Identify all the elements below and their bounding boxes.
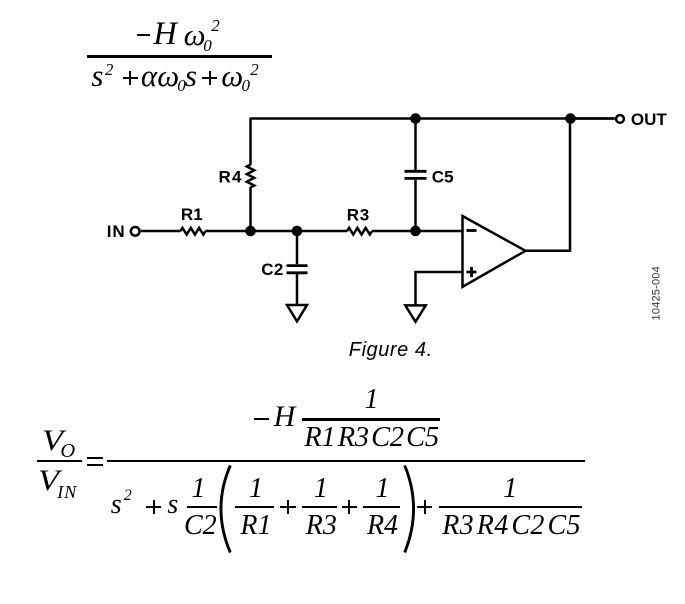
formula fraction 1/R1 numerator bbox=[237, 475, 276, 503]
op-amp plus sign bbox=[467, 267, 477, 277]
node junction C5/R3 bbox=[410, 226, 421, 237]
wire top rail bbox=[251, 117, 615, 120]
svg-text:OUT: OUT bbox=[631, 110, 668, 129]
formula equals sign bottom bar bbox=[87, 464, 104, 466]
formula top numerator H bbox=[153, 18, 176, 51]
formula big right parenthesis bbox=[398, 463, 424, 555]
formula top denominator superscript 2 bbox=[105, 61, 114, 78]
formula main fraction bar bbox=[107, 460, 585, 462]
formula denominator plus 1 horizontal bbox=[146, 506, 161, 508]
formula VIN subscript IN bbox=[57, 483, 77, 501]
node junction top rail feedback bbox=[565, 113, 576, 124]
formula fraction 1/R3 numerator bbox=[303, 475, 338, 503]
wire C2 branch lower bbox=[296, 274, 299, 305]
formula denominator plus 4 vertical bbox=[424, 500, 426, 515]
capacitor C5 plate bottom bbox=[405, 177, 427, 180]
figure caption Figure 4. bbox=[349, 340, 433, 360]
svg-text:R3: R3 bbox=[347, 206, 370, 225]
resistor R4 bbox=[247, 165, 254, 188]
formula denominator plus 2 vertical bbox=[287, 500, 289, 515]
formula top denominator alpha bbox=[141, 60, 157, 91]
formula fraction 1/R1 bar bbox=[235, 506, 274, 508]
op-amp U1 bbox=[463, 216, 526, 287]
wire C5 branch lower bbox=[414, 180, 417, 231]
formula denominator plus 1 vertical bbox=[153, 500, 155, 515]
watermark 10425-004 bbox=[652, 268, 663, 320]
formula fraction 1/C2 bar bbox=[187, 506, 217, 508]
wire op-amp noninverting input bbox=[416, 272, 463, 305]
formula top denominator plus 2 horizontal bbox=[202, 77, 217, 79]
wire op-amp output bbox=[526, 119, 570, 251]
svg-text:IN: IN bbox=[107, 222, 126, 241]
capacitor C2 plate bottom bbox=[287, 271, 308, 274]
OUT terminal bbox=[616, 115, 624, 123]
wire C5 branch upper bbox=[414, 119, 417, 171]
formula numerator R1 R3 C2 C5 bbox=[303, 424, 441, 453]
resistor R1 bbox=[180, 228, 205, 235]
formula top minus sign bbox=[137, 34, 150, 36]
formula top numerator subscript 0 bbox=[203, 37, 212, 54]
formula top denominator omega 1 bbox=[157, 60, 179, 91]
formula top denominator plus 1 vertical bbox=[129, 71, 131, 86]
capacitor C2 plate top bbox=[287, 264, 308, 267]
formula denominator plus 3 vertical bbox=[348, 500, 350, 515]
wire to OUT terminal bbox=[570, 117, 615, 120]
resistor R3 bbox=[347, 228, 372, 235]
formula fraction 1/R1 denominator bbox=[237, 512, 276, 540]
formula denominator plus 3 horizontal bbox=[342, 506, 357, 508]
formula fraction 1/R3 bar bbox=[302, 506, 337, 508]
formula numerator nested fraction bar bbox=[302, 418, 440, 420]
formula top denominator plus 2 vertical bbox=[209, 71, 211, 86]
wire R1 to R3 bbox=[205, 230, 347, 233]
formula fraction 1/C2 numerator bbox=[184, 475, 214, 503]
wire IN to R1 bbox=[141, 230, 181, 233]
formula top numerator omega bbox=[184, 19, 206, 50]
formula fraction 1/R4 denominator bbox=[364, 512, 401, 540]
svg-text:C5: C5 bbox=[432, 167, 454, 186]
ground symbol C2 bbox=[287, 305, 307, 321]
formula fraction 1/R4 numerator bbox=[364, 475, 401, 503]
formula fraction last numerator 1 bbox=[439, 475, 582, 503]
wire R4 branch lower bbox=[249, 187, 252, 231]
formula denominator superscript 2 bbox=[124, 488, 132, 504]
formula top denominator superscript 2 second bbox=[250, 61, 259, 78]
formula top denominator s 2 bbox=[185, 60, 197, 91]
formula top fraction bar bbox=[87, 55, 272, 58]
formula denominator plus 4 horizontal bbox=[417, 506, 432, 508]
wire R3 to op-amp inverting input bbox=[372, 230, 463, 233]
svg-text:R1: R1 bbox=[181, 205, 203, 224]
formula V fraction bar bbox=[37, 460, 82, 462]
node junction C2 bbox=[292, 226, 303, 237]
formula fraction 1/R4 bar bbox=[363, 506, 400, 508]
formula denominator plus 2 horizontal bbox=[280, 506, 295, 508]
formula fraction 1/C2 denominator bbox=[184, 512, 214, 540]
formula fraction last bar bbox=[439, 506, 582, 508]
wire C2 branch upper bbox=[296, 231, 299, 264]
formula top denominator plus 1 horizontal bbox=[123, 77, 138, 79]
formula numerator H bbox=[274, 402, 296, 432]
node junction R4/R1 bbox=[245, 226, 256, 237]
formula fraction last denominator R3 R4 C2 C5 bbox=[440, 512, 583, 540]
node junction top rail C5 bbox=[410, 113, 421, 124]
formula equals sign top bar bbox=[87, 457, 104, 459]
formula numerator nested 1 bbox=[303, 386, 441, 414]
formula VIN denominator V bbox=[38, 466, 59, 496]
formula top denominator omega 2 bbox=[221, 60, 243, 91]
wire R4 branch upper bbox=[249, 118, 252, 165]
formula fraction 1/R3 denominator bbox=[304, 512, 339, 540]
formula top denominator subscript 0 first bbox=[177, 77, 186, 94]
formula denominator s coefficient bbox=[167, 491, 178, 519]
svg-text:C2: C2 bbox=[261, 260, 284, 279]
formula VO numerator V bbox=[42, 426, 63, 456]
formula top denominator s bbox=[91, 60, 103, 91]
formula denominator s bbox=[111, 491, 122, 519]
IN terminal bbox=[131, 227, 140, 236]
capacitor C5 plate top bbox=[405, 170, 427, 173]
svg-text:R4: R4 bbox=[218, 167, 242, 186]
formula numerator minus sign bbox=[254, 418, 269, 420]
formula big left parenthesis bbox=[213, 463, 237, 555]
ground symbol op-amp bbox=[405, 305, 425, 321]
formula top numerator superscript 2 bbox=[211, 17, 220, 34]
formula VO subscript O bbox=[60, 441, 75, 462]
op-amp minus sign bbox=[467, 229, 477, 232]
formula top denominator subscript 0 second bbox=[242, 77, 251, 94]
